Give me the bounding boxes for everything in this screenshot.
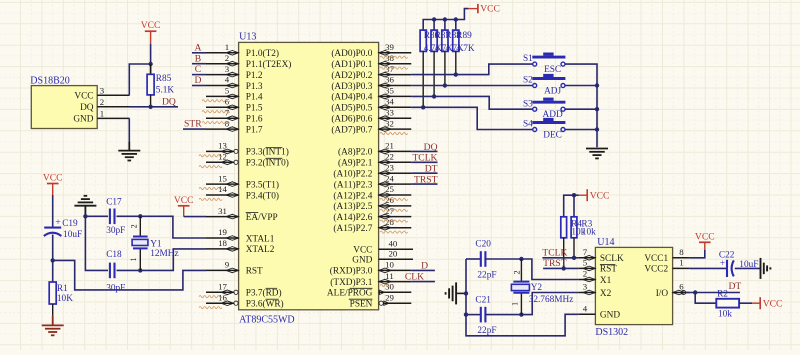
- svg-text:5: 5: [583, 258, 588, 268]
- U13 pin 27: [379, 216, 412, 218]
- ground (earth above C17 rail): [74, 196, 96, 215]
- junction R3 top: [572, 193, 576, 197]
- no-connect marker pin 15: [199, 187, 222, 189]
- svg-text:7: 7: [583, 247, 588, 257]
- U13 pin 20: [379, 258, 413, 260]
- svg-text:(AD3)P0.3: (AD3)P0.3: [331, 81, 372, 92]
- wire C21 left: [466, 314, 481, 316]
- capacitor C19 electrolytic: [44, 228, 62, 236]
- svg-text:P1.4: P1.4: [246, 93, 263, 103]
- U14 pin 5: [578, 267, 595, 269]
- svg-text:ESC: ESC: [544, 65, 561, 75]
- svg-text:5.1K: 5.1K: [156, 86, 175, 96]
- svg-text:VCC: VCC: [174, 195, 194, 206]
- wire net TRST to U14 RST: [543, 267, 578, 269]
- power VCC (left): [43, 173, 63, 196]
- wire C20 to Y2 top / X1: [486, 259, 579, 280]
- junction button ground rail: [595, 107, 599, 111]
- U13 pin 16: [206, 302, 234, 304]
- U13 pin 26: [379, 205, 412, 207]
- svg-text:DQ: DQ: [162, 96, 176, 107]
- svg-text:31: 31: [218, 206, 227, 216]
- svg-text:20: 20: [389, 248, 398, 258]
- svg-text:(A12)P2.4: (A12)P2.4: [333, 190, 372, 201]
- svg-text:21: 21: [385, 141, 394, 151]
- no-connect marker pin 26: [380, 209, 408, 211]
- switch S1 (ESC): [532, 57, 565, 66]
- svg-text:C19: C19: [62, 219, 78, 229]
- U13 pin 34: [379, 106, 412, 108]
- no-connect marker pin 6: [202, 111, 230, 113]
- power VCC (top pullups): [468, 4, 500, 15]
- U13 pin 8: [206, 128, 239, 130]
- wire P0.3 row to S2: [411, 85, 532, 87]
- svg-text:ALE/PROG: ALE/PROG: [327, 289, 373, 299]
- junction R85/DQ: [148, 105, 152, 109]
- U14 pin 4: [578, 313, 595, 315]
- svg-text:30pF: 30pF: [106, 226, 125, 236]
- svg-text:12MHz: 12MHz: [150, 249, 178, 259]
- power VCC (U14 VCC1): [695, 231, 715, 250]
- svg-text:(AD2)P0.2: (AD2)P0.2: [331, 70, 372, 81]
- wire VCC to C19: [52, 195, 54, 228]
- junction rail/C21: [464, 312, 468, 316]
- svg-text:+: +: [55, 217, 61, 228]
- svg-text:VCC: VCC: [695, 231, 715, 242]
- wire buttons to ground rail: [565, 64, 597, 147]
- svg-text:22: 22: [385, 152, 394, 162]
- svg-text:P3.7(RD): P3.7(RD): [246, 288, 282, 299]
- U13 pin 3: [206, 74, 239, 76]
- svg-text:P1.2: P1.2: [246, 71, 263, 81]
- svg-text:SCLK: SCLK: [600, 254, 624, 264]
- svg-text:R85: R85: [156, 74, 172, 84]
- IC U13 AT89C55WD body: [239, 42, 379, 309]
- svg-text:3: 3: [100, 85, 105, 95]
- power VCC (R85 pullup): [141, 20, 161, 44]
- junction R89/P0.2: [454, 72, 458, 76]
- U13 pin 28: [379, 227, 412, 229]
- svg-text:Y1: Y1: [150, 239, 162, 249]
- U13 pin 25: [379, 194, 412, 196]
- ground (C22): [761, 258, 771, 279]
- svg-text:9: 9: [225, 260, 230, 270]
- U13 pin 11: [379, 281, 412, 283]
- svg-text:D: D: [195, 75, 202, 86]
- U13 pin 35: [379, 95, 412, 97]
- svg-text:TRST: TRST: [414, 175, 438, 186]
- svg-text:2: 2: [100, 97, 104, 107]
- svg-text:PSEN: PSEN: [350, 300, 373, 310]
- svg-text:VCC: VCC: [74, 91, 93, 101]
- svg-text:P1.1(T2EX): P1.1(T2EX): [246, 59, 292, 70]
- junction VCC/R85/DS18B20: [148, 62, 152, 66]
- svg-text:XTAL1: XTAL1: [246, 234, 275, 244]
- junction R88/P0.3: [443, 83, 447, 87]
- svg-text:DS18B20: DS18B20: [30, 76, 69, 87]
- svg-text:(A9)P2.1: (A9)P2.1: [338, 158, 373, 169]
- svg-text:(A13)P2.5: (A13)P2.5: [333, 201, 372, 212]
- svg-text:P1.6: P1.6: [246, 115, 263, 125]
- U13 pin 39: [379, 52, 412, 54]
- svg-text:39: 39: [385, 42, 394, 52]
- svg-text:AT89C55WD: AT89C55WD: [239, 315, 295, 326]
- resistor R85: [150, 64, 152, 74]
- wire RST net jog: [53, 260, 206, 290]
- svg-text:1: 1: [511, 302, 520, 306]
- svg-text:C: C: [195, 64, 201, 75]
- svg-text:4.7K: 4.7K: [456, 44, 475, 54]
- U13 pin 5: [206, 95, 239, 97]
- wire ground rail left of C20/C21: [466, 259, 578, 336]
- U13 pin 4: [206, 85, 239, 87]
- svg-text:5: 5: [225, 86, 230, 96]
- svg-text:12: 12: [218, 152, 227, 162]
- wire net D from U13 pin 10: [411, 269, 435, 271]
- U13 pin 10: [379, 269, 412, 271]
- resistor R88: [442, 30, 448, 51]
- IC U14 DS1302 body: [595, 247, 672, 324]
- svg-text:(AD0)P0.0: (AD0)P0.0: [331, 48, 372, 59]
- junction C19/R1/RST: [51, 258, 55, 262]
- svg-text:P1.3: P1.3: [246, 82, 263, 92]
- svg-text:RST: RST: [600, 265, 617, 275]
- U13 pin 21: [379, 150, 412, 152]
- svg-text:8: 8: [679, 247, 684, 257]
- svg-text:C18: C18: [106, 250, 122, 260]
- U14 pin 3: [578, 292, 595, 294]
- svg-text:40: 40: [389, 239, 398, 249]
- svg-text:C21: C21: [475, 296, 491, 306]
- svg-text:2: 2: [583, 269, 587, 279]
- svg-text:33: 33: [385, 107, 394, 117]
- svg-text:P3.6(WR): P3.6(WR): [246, 299, 284, 310]
- svg-text:S1: S1: [523, 54, 533, 64]
- wire U14 pin1 to C22: [690, 267, 726, 269]
- svg-text:TCLK: TCLK: [412, 153, 437, 164]
- junction Y1 top: [138, 214, 142, 218]
- capacitor C17: [110, 209, 115, 225]
- U13 pin 36: [379, 85, 412, 87]
- svg-text:1: 1: [129, 257, 138, 261]
- svg-text:P1.5: P1.5: [246, 104, 263, 114]
- svg-text:22pF: 22pF: [477, 270, 496, 280]
- svg-text:P1.0(T2): P1.0(T2): [246, 48, 279, 59]
- junction button ground rail: [595, 83, 599, 87]
- svg-text:(A11)P2.3: (A11)P2.3: [334, 179, 373, 190]
- resistor R89: [453, 30, 459, 51]
- svg-text:(AD5)P0.5: (AD5)P0.5: [331, 103, 372, 114]
- U13 pin 37: [379, 74, 412, 76]
- svg-text:VCC: VCC: [590, 191, 610, 202]
- junction VCC rail: [443, 17, 447, 21]
- U13 pin 23: [379, 172, 412, 174]
- ground (R1): [42, 315, 64, 335]
- no-connect marker pin 28: [380, 231, 408, 233]
- U13 pin 19: [206, 237, 239, 239]
- svg-text:S3: S3: [523, 99, 533, 109]
- svg-text:17: 17: [218, 282, 227, 292]
- svg-text:P1.7: P1.7: [246, 125, 263, 135]
- svg-text:30: 30: [385, 282, 394, 292]
- svg-text:DQ: DQ: [80, 103, 94, 113]
- wire C19 to R1 junction: [52, 235, 54, 283]
- svg-text:30pF: 30pF: [106, 284, 125, 294]
- wire VCC to R4/R3 tops: [564, 195, 579, 217]
- svg-text:2: 2: [225, 53, 229, 63]
- no-connect marker pin 27: [380, 220, 408, 222]
- svg-text:10: 10: [385, 260, 394, 270]
- ground (buttons): [586, 149, 608, 159]
- junction R3/TCLK: [572, 256, 576, 260]
- no-connect marker pin 39: [380, 56, 408, 58]
- svg-text:2: 2: [513, 270, 522, 274]
- svg-text:R89: R89: [456, 31, 472, 41]
- svg-text:B: B: [195, 53, 201, 64]
- svg-text:23: 23: [385, 162, 394, 172]
- U14 pin 6: [673, 292, 690, 294]
- power VCC (R2): [752, 297, 782, 310]
- U14 pin 1: [673, 267, 690, 269]
- junction Y1 bottom: [138, 268, 142, 272]
- svg-text:10K: 10K: [57, 294, 73, 304]
- svg-text:2: 2: [130, 224, 139, 228]
- U13 pin 1: [206, 52, 239, 54]
- svg-text:1: 1: [679, 258, 683, 268]
- svg-text:13: 13: [218, 141, 227, 151]
- resistor R2: [716, 299, 739, 308]
- svg-text:DEC: DEC: [543, 130, 562, 140]
- U13 pin 22: [379, 161, 412, 163]
- U14 pin 2: [578, 279, 595, 281]
- svg-text:(A8)P2.0: (A8)P2.0: [338, 147, 373, 158]
- svg-text:X1: X1: [600, 276, 612, 286]
- svg-text:(AD1)P0.1: (AD1)P0.1: [331, 59, 372, 70]
- junction button ground rail: [595, 127, 599, 131]
- svg-text:P3.5(T1): P3.5(T1): [246, 179, 279, 190]
- svg-text:(A15)P2.7: (A15)P2.7: [333, 223, 372, 234]
- svg-text:VCC: VCC: [141, 20, 161, 31]
- wire net STR to U13 pin 8: [183, 128, 206, 130]
- junction R4/TRST: [562, 266, 566, 270]
- svg-text:P3.3(INT1): P3.3(INT1): [246, 147, 289, 158]
- wire net DQ from U13 pin 21: [411, 150, 437, 152]
- svg-text:TRST: TRST: [543, 258, 567, 269]
- wire net TRST from U13 pin 24: [411, 183, 437, 185]
- svg-text:U14: U14: [597, 237, 614, 248]
- junction VCC rail: [432, 17, 436, 21]
- svg-text:15: 15: [218, 173, 227, 183]
- svg-text:10k: 10k: [718, 310, 732, 320]
- svg-text:(AD7)P0.7: (AD7)P0.7: [331, 124, 372, 135]
- wire left rail C17/C18: [85, 216, 108, 270]
- ground (C20/C21 rail): [446, 282, 457, 304]
- wire C21 to Y2 bottom / X2: [486, 293, 579, 315]
- svg-text:VCC: VCC: [480, 4, 500, 15]
- wire C20 left: [466, 258, 481, 260]
- wire DS18B20 GND to ground: [128, 118, 130, 142]
- svg-text:Y2: Y2: [531, 283, 543, 293]
- U13 pin 15: [206, 183, 239, 185]
- svg-text:3: 3: [225, 64, 230, 74]
- U13 pin 18: [206, 248, 239, 250]
- switch S4 (DEC): [532, 123, 565, 132]
- resistor R3: [571, 217, 577, 238]
- U13 pin 29: [383, 302, 411, 304]
- svg-text:P3.2(INT0): P3.2(INT0): [246, 158, 289, 169]
- no-connect marker pin 13: [199, 155, 222, 157]
- svg-text:18: 18: [218, 238, 227, 248]
- svg-text:24: 24: [385, 173, 394, 183]
- U13 pin 2: [206, 63, 239, 65]
- resistor R87: [431, 30, 437, 51]
- wire C17 to Y1 top / XTAL1: [117, 216, 207, 238]
- wire earth to rail: [456, 292, 466, 294]
- no-connect marker pin 7: [202, 122, 230, 124]
- wire net C to U13 pin 3: [192, 74, 206, 76]
- no-connect marker pin 32: [380, 132, 408, 134]
- svg-text:11: 11: [385, 271, 393, 281]
- svg-text:(A14)P2.6: (A14)P2.6: [333, 212, 372, 223]
- svg-text:VCC: VCC: [763, 299, 783, 310]
- junction Y2 bottom: [519, 312, 523, 316]
- svg-text:RST: RST: [246, 267, 263, 277]
- U13 pin 12: [206, 161, 234, 163]
- svg-text:A: A: [195, 42, 202, 53]
- U14 pin 7: [578, 257, 595, 259]
- wire net D to U13 pin 4: [192, 85, 206, 87]
- U13 pin 7: [206, 117, 239, 119]
- svg-text:36: 36: [385, 75, 394, 85]
- crystal Y2: [520, 259, 522, 282]
- svg-text:U13: U13: [239, 31, 256, 42]
- wire net CLK from U13 pin 11: [411, 281, 435, 283]
- wire net DQ from DS18B20: [130, 106, 179, 108]
- wire net DT from U13 pin 23: [411, 172, 437, 174]
- no-connect marker pin 16: [199, 307, 222, 309]
- no-connect marker pin 11: [380, 284, 389, 286]
- wire net TCLK from U13 pin 22: [411, 161, 437, 163]
- svg-text:22pF: 22pF: [477, 326, 496, 336]
- junction rail/earth/C17: [83, 214, 87, 218]
- U13 pin 6: [206, 106, 239, 108]
- svg-text:P3.4(T0): P3.4(T0): [246, 190, 279, 201]
- crystal Y1: [139, 216, 141, 236]
- U13 pin 14: [206, 194, 239, 196]
- U13 pin 33: [379, 117, 412, 119]
- no-connect marker pin 38: [380, 67, 408, 69]
- svg-text:C22: C22: [719, 251, 735, 261]
- no-connect marker pin 25: [380, 198, 408, 200]
- svg-text:25: 25: [385, 184, 394, 194]
- sensor DS18B20 body: [31, 86, 97, 129]
- junction Y2 top: [519, 257, 523, 261]
- svg-text:I/O: I/O: [656, 289, 669, 299]
- U13 pin 13: [206, 150, 234, 152]
- wire VCC to R85 and DS18B20 VCC: [150, 44, 152, 74]
- svg-text:GND: GND: [73, 115, 93, 125]
- junction VCC rail: [454, 17, 458, 21]
- svg-text:35: 35: [385, 86, 394, 96]
- capacitor C18: [110, 263, 115, 279]
- svg-text:STR: STR: [184, 119, 202, 130]
- wire net TCLK to U14 SCLK: [542, 257, 578, 259]
- junction I/O-DT-R2: [693, 290, 697, 294]
- svg-text:D: D: [421, 260, 428, 271]
- DS18B20 pin 2: [97, 106, 129, 108]
- wire VCC rail to pullups: [423, 9, 468, 31]
- svg-text:3: 3: [583, 282, 588, 292]
- svg-text:16: 16: [218, 292, 227, 302]
- junction R86/P0.5: [421, 105, 425, 109]
- svg-text:(RXD)P3.0: (RXD)P3.0: [330, 266, 373, 277]
- U14 pin 8: [673, 257, 690, 259]
- svg-text:VCC1: VCC1: [644, 254, 668, 264]
- svg-text:6: 6: [679, 282, 684, 292]
- U13 pin 30: [379, 291, 412, 293]
- junction R87/P0.4: [432, 94, 436, 98]
- svg-text:R2: R2: [717, 290, 728, 300]
- svg-text:10k: 10k: [582, 227, 596, 237]
- svg-text:GND: GND: [352, 256, 372, 266]
- svg-text:34: 34: [385, 97, 394, 107]
- junction earth/rail: [464, 291, 468, 295]
- DS18B20 pin 1: [97, 117, 129, 119]
- svg-text:ADJ: ADJ: [544, 86, 561, 96]
- svg-text:TCLK: TCLK: [542, 247, 567, 258]
- svg-text:1: 1: [225, 42, 229, 52]
- svg-text:32.768MHz: 32.768MHz: [529, 295, 574, 305]
- svg-text:VCC2: VCC2: [644, 265, 668, 275]
- wire P0.5 row to S4: [411, 107, 532, 129]
- DS18B20 pin 3: [97, 94, 129, 96]
- svg-text:4: 4: [225, 75, 230, 85]
- wire C18 to Y1 bottom / XTAL2: [117, 249, 207, 271]
- svg-text:R1: R1: [57, 284, 68, 294]
- switch S3 (ADD): [532, 102, 565, 111]
- svg-text:10uF: 10uF: [63, 230, 82, 240]
- wire VCC to EA/VPP pin 31: [184, 216, 206, 218]
- wire net B to U13 pin 2: [192, 63, 206, 65]
- svg-text:DS1302: DS1302: [595, 327, 628, 338]
- svg-text:29: 29: [385, 292, 394, 302]
- U13 pin 24: [379, 183, 412, 185]
- svg-text:VCC: VCC: [43, 173, 63, 184]
- svg-text:CLK: CLK: [405, 272, 424, 283]
- wire C22 to earth: [735, 267, 761, 269]
- power VCC (EA/VPP): [174, 195, 194, 217]
- svg-text:S2: S2: [523, 76, 533, 86]
- wire U14 pin8 to VCC: [690, 250, 705, 258]
- no-connect marker pin 12: [199, 166, 222, 168]
- svg-text:EA/VPP: EA/VPP: [246, 213, 278, 223]
- svg-text:C20: C20: [475, 240, 491, 250]
- svg-text:(A10)P2.2: (A10)P2.2: [333, 169, 372, 180]
- switch S2 (ADJ): [532, 79, 565, 88]
- resistor R86: [420, 30, 426, 51]
- power VCC (R4/R3): [578, 189, 609, 202]
- svg-text:14: 14: [218, 184, 227, 194]
- svg-text:VCC: VCC: [353, 246, 372, 256]
- svg-text:S4: S4: [523, 120, 533, 130]
- U13 pin 40: [379, 248, 413, 250]
- no-connect marker pin 5: [202, 100, 230, 102]
- wire P0.4 row to S3: [411, 96, 532, 109]
- U13 pin 17: [206, 291, 234, 293]
- resistor R1: [49, 282, 56, 304]
- svg-text:1: 1: [100, 109, 104, 119]
- wire net A to U13 pin 1: [192, 52, 206, 54]
